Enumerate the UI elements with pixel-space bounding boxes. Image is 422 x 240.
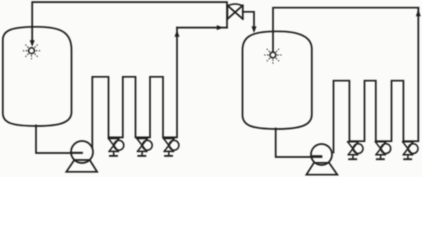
drain valve stage1 #1 bbox=[109, 139, 124, 157]
wire: valve outlet down into vessel V2 bbox=[243, 12, 254, 27]
pump P2 casing bbox=[311, 144, 332, 165]
drain valve stage1 #3 bbox=[164, 139, 179, 157]
drain valve stage2 #1 bbox=[348, 142, 363, 160]
wire: stage-1 outlet to valve junction bbox=[177, 27, 227, 29]
wire: recycle header stage 2 (riser to vessel V2 spray) bbox=[273, 8, 418, 52]
drain valve stage2 #2 bbox=[375, 142, 390, 160]
pump P1 base bbox=[66, 160, 97, 172]
wire: V2 bottom outlet to pump P2 suction bbox=[276, 129, 322, 158]
drain valve stage1 #2 bbox=[137, 139, 152, 157]
wire: V1 bottom outlet to pump P1 suction bbox=[36, 126, 82, 154]
arrowhead: up on stage-1 outlet riser bbox=[175, 30, 180, 37]
pump P2 suction stub to center bbox=[311, 155, 321, 157]
arrowhead: up on stage-2 riser bbox=[416, 10, 421, 17]
arrowhead: right into junction bbox=[217, 25, 224, 30]
arrowhead: feed into V1 spray bbox=[30, 40, 35, 47]
wire: P1 discharge riser and serpentine columns stage 1 bbox=[92, 28, 177, 148]
pump P2 base bbox=[306, 163, 337, 175]
wire: recycle header stage 1 (junction to vessel V1 top) bbox=[32, 2, 227, 41]
spray nozzle in V1 bbox=[23, 45, 40, 60]
wire: P2 discharge riser and serpentine columns stage 2 bbox=[334, 8, 419, 153]
pump P1 casing bbox=[71, 141, 93, 163]
arrowhead: down into V2 dome bbox=[252, 26, 257, 33]
pump P1 suction stub to center bbox=[71, 152, 82, 154]
vessel V1 bbox=[3, 27, 72, 126]
control valve between stages (bowtie with arc) bbox=[227, 5, 242, 19]
spray nozzle in V2 bbox=[264, 49, 281, 64]
drain valve stage2 #3 bbox=[403, 142, 418, 160]
vessel V2 bbox=[243, 31, 312, 129]
